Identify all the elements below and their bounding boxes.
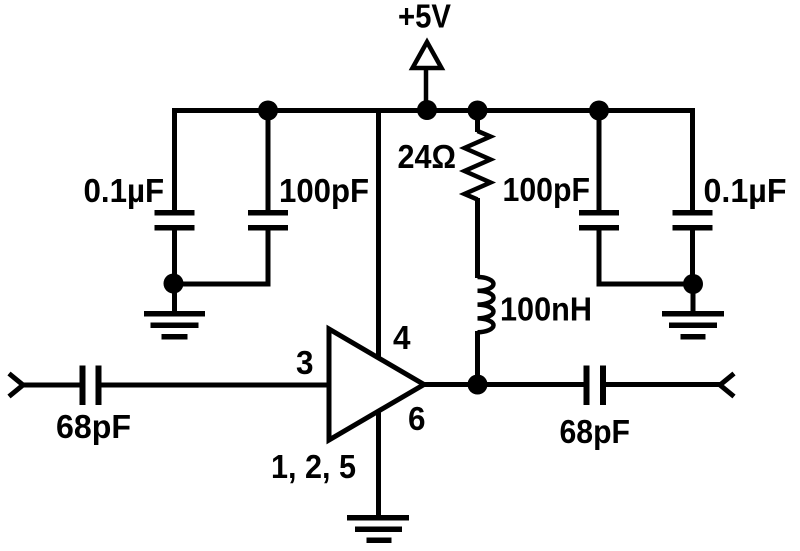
wire input 68pF to amplifier pin 3 bbox=[101, 383, 330, 388]
ground left bbox=[144, 311, 205, 340]
wire +5V stem bbox=[424, 70, 429, 110]
node right 100pF top junction bbox=[589, 101, 609, 121]
wire right 100pF drop from rail bbox=[597, 108, 602, 212]
capacitor C3 68pF input plates bbox=[80, 366, 102, 406]
wire left ground lead bbox=[172, 284, 177, 312]
wire right 100pF lower lead and joining segment bbox=[599, 228, 694, 284]
capacitor C4 68pF output plates bbox=[584, 366, 607, 406]
node left ground junction bbox=[164, 274, 184, 294]
node left 100pF top junction bbox=[258, 101, 278, 121]
svg-text:0.1µF: 0.1µF bbox=[84, 172, 165, 209]
wire input line to 68pF bbox=[22, 383, 81, 388]
output terminal arrow bbox=[720, 374, 734, 397]
capacitor C5 100pF right plates bbox=[579, 210, 619, 231]
inductor 100nH coil bbox=[478, 277, 494, 332]
svg-text:68pF: 68pF bbox=[560, 413, 631, 450]
node resistor top junction bbox=[468, 101, 488, 121]
svg-text:100pF: 100pF bbox=[503, 171, 591, 208]
power symbol +5V arrow triangle bbox=[413, 42, 442, 68]
svg-text:100nH: 100nH bbox=[500, 291, 592, 328]
wire inductor to output node lead bbox=[475, 331, 480, 386]
capacitor C2 100pF left plates bbox=[248, 210, 288, 231]
wire resistor top lead bbox=[475, 110, 480, 132]
wire output 68pF to terminal bbox=[606, 382, 721, 387]
svg-text:0.1µF: 0.1µF bbox=[704, 172, 787, 209]
wire right 0.1uF lower lead bbox=[690, 228, 695, 284]
node supply rail / +5V junction bbox=[417, 100, 437, 120]
node right ground junction bbox=[683, 274, 703, 294]
svg-text:100pF: 100pF bbox=[279, 172, 369, 209]
wire top supply rail with corner drops bbox=[175, 111, 693, 211]
ground right bbox=[662, 311, 724, 340]
svg-text:3: 3 bbox=[296, 344, 314, 381]
svg-text:68pF: 68pF bbox=[56, 408, 131, 445]
wire left 100pF lower lead and joining segment bbox=[172, 228, 268, 284]
wire resistor to inductor lead bbox=[475, 198, 480, 278]
svg-text:24Ω: 24Ω bbox=[398, 138, 457, 175]
wire output node to 68pF bbox=[478, 382, 586, 387]
capacitor C6 0.1uF right plates bbox=[673, 210, 713, 231]
wire left 100pF drop from rail bbox=[266, 108, 271, 212]
node output junction bbox=[468, 375, 488, 395]
svg-text:1, 2, 5: 1, 2, 5 bbox=[271, 448, 356, 485]
ground amplifier bottom bbox=[347, 515, 409, 543]
wire right ground lead bbox=[691, 284, 696, 312]
svg-text:+5V: +5V bbox=[398, 0, 451, 35]
svg-text:4: 4 bbox=[393, 319, 411, 356]
capacitor C1 0.1uF left plates bbox=[155, 210, 195, 231]
wire amplifier supply line (pin 4 to rail, pins 1,2,5 to ground) bbox=[376, 110, 381, 516]
input terminal arrow bbox=[9, 374, 23, 397]
wire amplifier output to node bbox=[422, 382, 480, 387]
wire left 0.1uF lower lead bbox=[172, 228, 177, 285]
svg-text:6: 6 bbox=[408, 400, 426, 437]
resistor 24 ohm zigzag bbox=[465, 131, 491, 200]
op-amp U1 amplifier triangle bbox=[329, 329, 424, 440]
